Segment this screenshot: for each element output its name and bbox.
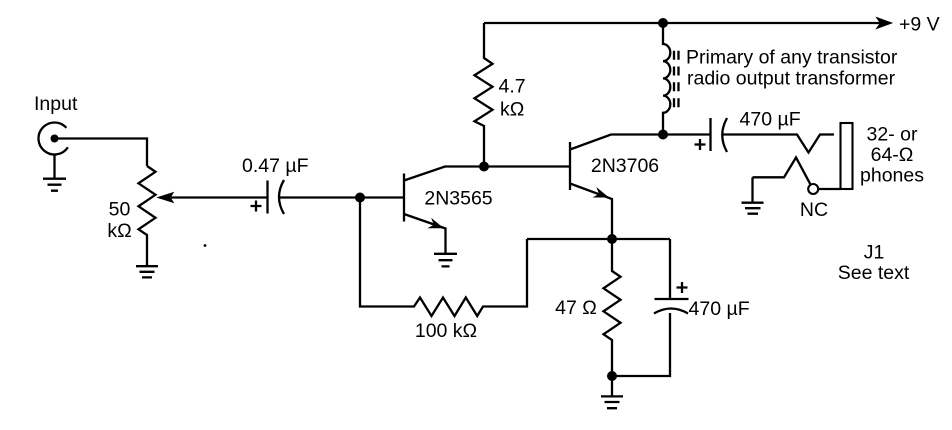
svg-text:50: 50 <box>109 198 131 220</box>
svg-text:Primary of any transistor: Primary of any transistor <box>686 47 898 69</box>
svg-text:radio output transformer: radio output transformer <box>687 68 896 90</box>
svg-text:2N3565: 2N3565 <box>424 187 492 209</box>
svg-text:100 kΩ: 100 kΩ <box>415 320 477 342</box>
svg-text:4.7: 4.7 <box>499 76 526 98</box>
svg-text:64-Ω: 64-Ω <box>871 144 914 166</box>
svg-text:47 Ω: 47 Ω <box>555 297 597 319</box>
svg-text:32- or: 32- or <box>867 124 918 146</box>
svg-text:470 µF: 470 µF <box>689 298 750 320</box>
svg-text:+9 V: +9 V <box>899 13 940 35</box>
svg-text:J1: J1 <box>864 242 885 264</box>
svg-text:0.47 µF: 0.47 µF <box>242 155 309 177</box>
svg-text:phones: phones <box>860 165 924 187</box>
svg-text:kΩ: kΩ <box>107 220 131 242</box>
svg-text:NC: NC <box>800 199 828 221</box>
svg-text:470 µF: 470 µF <box>740 108 801 130</box>
svg-text:kΩ: kΩ <box>500 98 524 120</box>
svg-text:Input: Input <box>34 93 78 115</box>
svg-text:See text: See text <box>838 262 910 284</box>
svg-text:2N3706: 2N3706 <box>591 155 659 177</box>
